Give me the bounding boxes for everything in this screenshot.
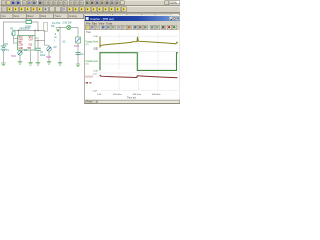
ground (C1) xyxy=(36,63,40,66)
resistor R3 tall light box xyxy=(44,22,48,31)
svg-text:Time (s): Time (s) xyxy=(127,97,136,100)
wire battery vertical xyxy=(3,22,5,46)
wire cap C1 drop xyxy=(37,41,39,48)
parts bin tabs xyxy=(0,13,180,18)
plot1 axis labels xyxy=(94,36,99,50)
wire out node down xyxy=(59,28,61,63)
svg-text:File: File xyxy=(86,21,91,25)
wire stub to TRI xyxy=(14,42,18,44)
svg-text:I(V1) A: I(V1) A xyxy=(86,76,94,79)
grapher window xyxy=(0,0,180,110)
label C1 xyxy=(40,52,46,57)
trace1 capacitor voltage (olive) xyxy=(100,37,178,47)
svg-text:View: View xyxy=(99,21,105,25)
junction dots xyxy=(18,27,61,41)
IC 555 timer U1 xyxy=(18,36,36,51)
plot panel xyxy=(85,30,180,100)
wire rail left drop xyxy=(13,31,15,44)
wire rail right drop xyxy=(44,31,46,41)
wire lamp to right column xyxy=(71,28,78,38)
gridlines plot2 xyxy=(100,51,179,70)
gridlines plot3 xyxy=(100,73,179,91)
wire RST pin drop xyxy=(34,31,36,36)
wire battery to ground xyxy=(3,51,5,63)
svg-text:600.00m: 600.00m xyxy=(152,94,161,96)
wire GND pin to ground xyxy=(30,50,32,63)
row1 buttons xyxy=(1,1,124,5)
plot3 axis labels xyxy=(93,74,98,93)
capacitor C1 xyxy=(36,48,41,50)
plot2 axis labels xyxy=(94,49,99,73)
ground (out column) xyxy=(58,63,62,66)
legend dash plot3 xyxy=(86,82,92,84)
main toolbar row 1 xyxy=(0,0,180,19)
row2 buttons xyxy=(1,7,126,12)
wire probe2 top xyxy=(45,41,50,47)
trace2 output square wave (green) xyxy=(100,53,178,71)
ground (right column) xyxy=(76,64,80,67)
svg-text:(V): (V) xyxy=(86,63,89,65)
ground (battery) xyxy=(2,63,6,66)
svg-text:Tools: Tools xyxy=(106,21,113,25)
bottom strip xyxy=(85,100,180,104)
title bar xyxy=(85,16,180,21)
ground (probe2) xyxy=(47,62,51,65)
x axis labels xyxy=(97,94,161,96)
wire probe2 to ground xyxy=(48,52,50,62)
title buttons xyxy=(170,17,180,20)
svg-text:Edit: Edit xyxy=(92,21,97,25)
wire DIS row xyxy=(35,40,45,42)
window frame xyxy=(84,15,180,104)
label lamp xyxy=(51,23,61,28)
wire probe to ground xyxy=(19,56,21,62)
probe2 on THR node xyxy=(47,47,51,51)
lamp X1 xyxy=(67,25,71,29)
vcc rail xyxy=(14,30,45,32)
ground (CON probe) xyxy=(18,62,22,65)
ground (GND pin) xyxy=(29,63,33,66)
wire C1 to ground xyxy=(37,50,39,62)
wire lamp row xyxy=(56,27,67,29)
net arrow xyxy=(57,29,59,31)
svg-text:Trans: Trans xyxy=(86,101,93,104)
battery V1 xyxy=(1,46,6,51)
wire top rail from battery to R1 xyxy=(4,21,27,23)
menu bar xyxy=(86,21,113,25)
555 pin labels xyxy=(18,37,34,50)
svg-text:200.00m: 200.00m xyxy=(113,94,122,96)
wire OUT stub xyxy=(35,37,39,39)
wire VCC pin drop xyxy=(18,31,20,36)
wire stub to THR xyxy=(14,38,18,40)
schematic canvas xyxy=(0,19,180,110)
probe on CON pin xyxy=(18,51,22,55)
grapher toolbar xyxy=(85,25,177,30)
label V1 12V xyxy=(4,44,10,52)
svg-text:400.00m: 400.00m xyxy=(133,94,142,96)
trace3 supply current (dark red) xyxy=(100,75,178,77)
gridlines plot1 xyxy=(100,34,179,48)
svg-text:Tran: Tran xyxy=(86,31,91,34)
voltmeter box xyxy=(76,37,81,43)
capacitor C2 xyxy=(76,53,80,55)
title icon xyxy=(86,17,89,20)
zoom combo row1 xyxy=(165,1,180,5)
label R1 xyxy=(25,19,32,29)
svg-text:(V): (V) xyxy=(86,44,89,46)
svg-text:Grapher - [555 ast]: Grapher - [555 ast] xyxy=(90,17,114,21)
resistor R2 vertical box xyxy=(12,31,15,36)
resistor R1 xyxy=(26,21,32,24)
wire R1 to corner xyxy=(32,22,39,31)
label teal mid xyxy=(54,34,58,49)
wire voltmeter down xyxy=(77,44,79,65)
label R2 small xyxy=(10,29,27,52)
